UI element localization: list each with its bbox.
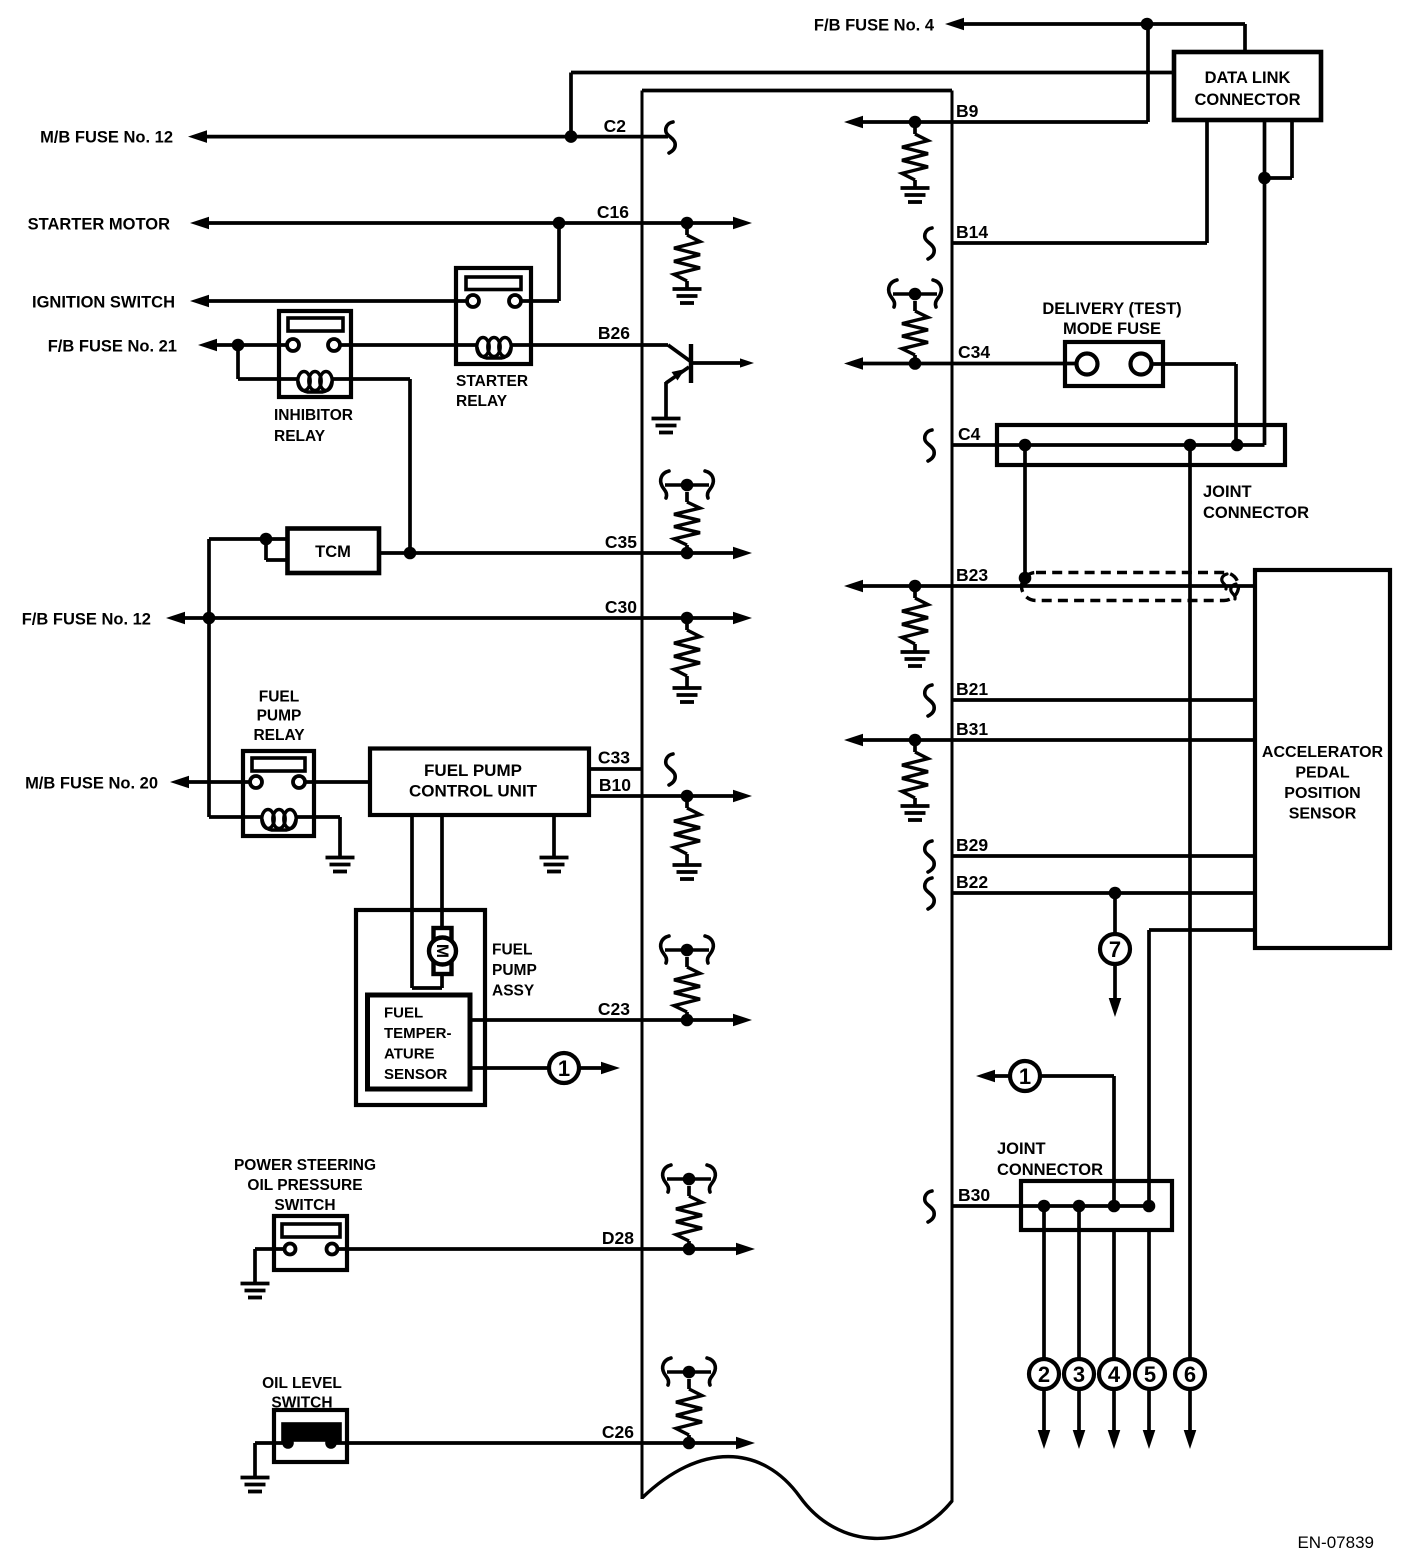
node 2 circle bbox=[1029, 1359, 1059, 1389]
svg-text:DATA LINK: DATA LINK bbox=[1205, 69, 1291, 87]
resistor pull-up C23 bbox=[674, 957, 700, 1020]
power steering switch contact right bbox=[327, 1244, 338, 1255]
svg-text:DELIVERY (TEST): DELIVERY (TEST) bbox=[1042, 300, 1181, 318]
wire C26 ECM side bbox=[642, 1437, 755, 1450]
svg-text:ACCELERATOR: ACCELERATOR bbox=[1262, 744, 1384, 761]
inhibitor relay contact left bbox=[287, 339, 299, 351]
svg-text:B29: B29 bbox=[956, 835, 988, 855]
svg-text:FUEL: FUEL bbox=[259, 689, 299, 706]
wire D28 ECM side bbox=[642, 1243, 755, 1256]
oil level switch float bar bbox=[283, 1424, 340, 1440]
wire fuel temperature sensor to node 1 bbox=[470, 1066, 549, 1070]
wire B30 row bbox=[952, 1204, 1149, 1208]
svg-text:B26: B26 bbox=[598, 323, 630, 343]
DATA LINK CONNECTOR box bbox=[1174, 52, 1321, 120]
ground B9 resistor bbox=[901, 188, 930, 202]
starter relay contact left bbox=[467, 295, 479, 307]
FUEL PUMP ASSY box bbox=[356, 910, 485, 1105]
svg-text:JOINT: JOINT bbox=[997, 1140, 1046, 1158]
node 6 circle bbox=[1175, 1359, 1205, 1389]
ground oil level switch bbox=[241, 1478, 270, 1492]
svg-text:STARTER MOTOR: STARTER MOTOR bbox=[28, 216, 170, 234]
wire DLC pin to B14 bbox=[1205, 120, 1209, 243]
wire node 1 to bottom joint connector bbox=[1040, 1076, 1114, 1206]
label F/B FUSE No. 12 bbox=[22, 611, 151, 629]
label FUEL TEMPERATURE SENSOR bbox=[384, 1005, 452, 1084]
node 3 circle bbox=[1064, 1359, 1094, 1389]
svg-text:MODE FUSE: MODE FUSE bbox=[1063, 320, 1161, 338]
wire C33 to bus bbox=[589, 767, 642, 771]
svg-text:5: 5 bbox=[1144, 1362, 1156, 1387]
node 4 circle bbox=[1099, 1359, 1129, 1389]
wire oil level switch ground leg bbox=[255, 1443, 288, 1476]
svg-text:C4: C4 bbox=[958, 424, 981, 444]
svg-text:SENSOR: SENSOR bbox=[1289, 806, 1357, 823]
node 7 circle bbox=[1100, 934, 1130, 964]
pin C33 bbox=[598, 748, 630, 768]
wire inhibitor to starter relay bbox=[340, 343, 456, 347]
svg-text:OIL PRESSURE: OIL PRESSURE bbox=[247, 1177, 362, 1194]
svg-text:POSITION: POSITION bbox=[1284, 785, 1360, 802]
svg-text:M/B FUSE No. 20: M/B FUSE No. 20 bbox=[25, 775, 158, 793]
wire M/B fuse No.20 to fuel pump relay bbox=[170, 776, 250, 789]
connector break B14 bbox=[925, 228, 934, 259]
svg-text:INHIBITOR: INHIBITOR bbox=[274, 407, 353, 424]
TCM U1 box bbox=[288, 529, 380, 574]
pin C26 bbox=[602, 1422, 634, 1442]
wire D28 to bus bbox=[338, 1247, 643, 1251]
svg-text:3: 3 bbox=[1073, 1362, 1085, 1387]
node right bus line bbox=[951, 91, 954, 1503]
resistor pull-down B10 bbox=[674, 796, 700, 864]
wire F/B fuse No.4 rail bbox=[945, 18, 1245, 52]
pin D28 bbox=[602, 1228, 634, 1248]
connector break C4 bbox=[925, 430, 934, 461]
wire to node 3 bbox=[1077, 1206, 1081, 1359]
label M/B FUSE No. 12 bbox=[40, 129, 173, 147]
relay FUEL PUMP RELAY box bbox=[243, 751, 314, 836]
pin C35 bbox=[605, 532, 637, 552]
wire F/B12 riser to TCM bbox=[209, 533, 287, 817]
svg-text:B30: B30 bbox=[958, 1185, 990, 1205]
node B30 junction 1 bbox=[1038, 1200, 1051, 1213]
JOINT CONNECTOR bottom box bbox=[1021, 1181, 1172, 1230]
pin C4 bbox=[958, 424, 981, 444]
node 1 circle fuel temp bbox=[549, 1053, 579, 1083]
wire delivery fuse to joint connector bbox=[1152, 364, 1237, 445]
wire B26 ECM side bbox=[642, 343, 668, 347]
connector break C33 bbox=[666, 754, 675, 785]
svg-text:B31: B31 bbox=[956, 719, 988, 739]
starter relay coil bbox=[456, 338, 531, 359]
svg-text:M: M bbox=[433, 944, 452, 958]
wire joint connector to B23 bbox=[1019, 445, 1032, 586]
pin C23 bbox=[598, 999, 630, 1019]
svg-text:C26: C26 bbox=[602, 1422, 634, 1442]
svg-text:4: 4 bbox=[1108, 1362, 1121, 1387]
wire C23 to bus bbox=[470, 1018, 642, 1022]
arrow node 1 left bbox=[976, 1070, 1012, 1083]
power steering switch contact left bbox=[285, 1244, 296, 1255]
motor M1 fuel pump bbox=[429, 928, 456, 974]
splice joint above C23 bbox=[661, 936, 714, 963]
wire B29 row bbox=[952, 854, 1255, 858]
svg-text:F/B FUSE No. 4: F/B FUSE No. 4 bbox=[814, 17, 935, 35]
svg-text:CONTROL UNIT: CONTROL UNIT bbox=[409, 782, 538, 801]
label FUEL PUMP RELAY bbox=[253, 689, 305, 745]
fuel pump relay armature bar bbox=[252, 758, 305, 771]
pin B30 bbox=[958, 1185, 990, 1205]
svg-text:B14: B14 bbox=[956, 222, 988, 242]
svg-text:FUEL PUMP: FUEL PUMP bbox=[424, 761, 522, 780]
svg-text:PUMP: PUMP bbox=[492, 962, 537, 979]
connector break C2 bbox=[666, 122, 675, 153]
oil level switch contact right bbox=[325, 1437, 337, 1449]
pin B26 bbox=[598, 323, 630, 343]
node 1 circle right bbox=[1010, 1061, 1040, 1091]
wire B23 row bbox=[844, 580, 1255, 593]
label DATA LINK CONNECTOR bbox=[1194, 69, 1300, 109]
ground fuel pump relay coil bbox=[326, 858, 355, 872]
ACCELERATOR PEDAL POSITION SENSOR box bbox=[1255, 570, 1390, 948]
wire C16 ECM side bbox=[642, 217, 752, 230]
inhibitor relay coil bbox=[279, 372, 351, 393]
svg-text:STARTER: STARTER bbox=[456, 373, 528, 390]
delivery fuse contact right bbox=[1131, 354, 1152, 375]
svg-text:B23: B23 bbox=[956, 565, 988, 585]
resistor pull-down B31 bbox=[902, 740, 928, 805]
delivery fuse contact left bbox=[1077, 354, 1098, 375]
ground power steering switch bbox=[241, 1284, 270, 1298]
node 5 circle bbox=[1135, 1359, 1165, 1389]
JOINT CONNECTOR top box bbox=[997, 425, 1285, 465]
label JOINT CONNECTOR top bbox=[1203, 483, 1309, 522]
svg-text:TCM: TCM bbox=[315, 543, 351, 561]
svg-text:C34: C34 bbox=[958, 342, 990, 362]
wire TCM second input stub bbox=[266, 539, 287, 560]
svg-text:2: 2 bbox=[1038, 1362, 1050, 1387]
pin B31 bbox=[956, 719, 988, 739]
label M/B FUSE No. 20 bbox=[25, 775, 158, 793]
svg-text:C2: C2 bbox=[604, 116, 627, 136]
svg-text:C23: C23 bbox=[598, 999, 630, 1019]
wire APS to bottom joint connector bbox=[1149, 930, 1255, 1206]
ground transistor emitter bbox=[652, 419, 681, 433]
ground C16 resistor bbox=[673, 289, 702, 303]
svg-text:ASSY: ASSY bbox=[492, 983, 535, 1000]
wire control unit ground bbox=[552, 815, 556, 856]
wire power steering switch ground leg bbox=[255, 1249, 285, 1282]
connector break B22 bbox=[925, 878, 934, 909]
wire B9 from DLC rail bbox=[844, 24, 1148, 128]
svg-text:B9: B9 bbox=[956, 101, 979, 121]
ground fuel pump control unit bbox=[540, 858, 569, 872]
wire F/B fuse No.12 to bus C30 bbox=[166, 612, 642, 625]
svg-text:B22: B22 bbox=[956, 872, 988, 892]
svg-text:PUMP: PUMP bbox=[257, 708, 302, 725]
ground B23 resistor bbox=[901, 652, 930, 666]
node C4 junction 3 bbox=[1231, 439, 1244, 452]
node B30 junction 3 bbox=[1108, 1200, 1121, 1213]
transistor Q1 bbox=[666, 344, 754, 417]
svg-text:POWER STEERING: POWER STEERING bbox=[234, 1157, 376, 1174]
svg-text:D28: D28 bbox=[602, 1228, 634, 1248]
switch OIL LEVEL box bbox=[274, 1410, 347, 1462]
pin C30 bbox=[605, 597, 637, 617]
pin B22 bbox=[956, 872, 988, 892]
svg-text:B10: B10 bbox=[599, 775, 631, 795]
wire C30 ECM side bbox=[642, 612, 752, 625]
wire control unit to fuel pump left bbox=[410, 815, 414, 988]
svg-text:M/B FUSE No. 12: M/B FUSE No. 12 bbox=[40, 129, 173, 147]
starter relay contact right bbox=[509, 295, 521, 307]
svg-text:JOINT: JOINT bbox=[1203, 483, 1252, 501]
fuel pump relay contact right bbox=[293, 776, 305, 788]
label F/B FUSE No. 21 bbox=[48, 338, 177, 356]
label DELIVERY (TEST) MODE FUSE bbox=[1042, 300, 1181, 338]
arrow node 2 down bbox=[1038, 1389, 1051, 1449]
pin B21 bbox=[956, 679, 988, 699]
pin C34 bbox=[958, 342, 990, 362]
wire top rail to data link connector bbox=[571, 73, 1174, 137]
arrow node 7 down bbox=[1109, 964, 1122, 1017]
svg-text:SENSOR: SENSOR bbox=[384, 1066, 448, 1083]
connector break B30 bbox=[925, 1191, 934, 1222]
resistor pull-up C35 bbox=[674, 492, 700, 553]
svg-text:1: 1 bbox=[558, 1056, 570, 1081]
svg-text:OIL LEVEL: OIL LEVEL bbox=[262, 1375, 342, 1392]
wire B14 to DLC bbox=[952, 241, 1207, 245]
wire C4 row bbox=[952, 443, 1265, 447]
wire DLC short pin bbox=[1265, 120, 1293, 178]
wire B10 to bus bbox=[589, 794, 642, 798]
svg-text:RELAY: RELAY bbox=[274, 428, 326, 445]
svg-text:TEMPER-: TEMPER- bbox=[384, 1025, 452, 1042]
arrow node 3 down bbox=[1073, 1389, 1086, 1449]
svg-text:EN-07839: EN-07839 bbox=[1297, 1533, 1374, 1552]
label STARTER MOTOR bbox=[28, 216, 170, 234]
FUEL PUMP CONTROL UNIT box bbox=[370, 749, 589, 816]
resistor pull-up D28 bbox=[676, 1186, 702, 1249]
inhibitor relay contact right bbox=[328, 339, 340, 351]
svg-text:FUEL: FUEL bbox=[384, 1005, 423, 1022]
oil level switch contact left bbox=[282, 1437, 294, 1449]
wire inhibitor coil feed bbox=[238, 345, 280, 379]
wire B22 to node 7 bbox=[1113, 893, 1117, 934]
wire C35 ECM side bbox=[642, 547, 752, 560]
resistor pull-up C26 bbox=[676, 1379, 702, 1443]
connector break B21 bbox=[925, 685, 934, 716]
svg-text:RELAY: RELAY bbox=[253, 727, 305, 744]
node B30 junction 2 bbox=[1073, 1200, 1086, 1213]
wire TCM to bus C35 bbox=[379, 547, 642, 560]
splice joint above D28 bbox=[663, 1165, 716, 1192]
resistor pull-up C34 bbox=[902, 301, 928, 364]
label JOINT CONNECTOR bottom bbox=[997, 1140, 1103, 1179]
label FUEL PUMP CONTROL UNIT bbox=[409, 761, 538, 801]
wire B22 row bbox=[952, 887, 1255, 900]
label F/B FUSE No. 4 bbox=[814, 17, 935, 35]
wire fuel pump motor to control unit bbox=[412, 974, 442, 988]
wire to node 4 bbox=[1112, 1230, 1116, 1359]
resistor pull-down B23 bbox=[902, 586, 928, 651]
pin C2 bbox=[604, 116, 627, 136]
ground B31 resistor bbox=[901, 806, 930, 820]
wire to node 2 bbox=[1042, 1206, 1046, 1359]
label IGNITION SWITCH bbox=[32, 294, 175, 312]
label OIL LEVEL SWITCH bbox=[262, 1375, 342, 1412]
svg-text:CONNECTOR: CONNECTOR bbox=[997, 1161, 1103, 1179]
svg-text:7: 7 bbox=[1109, 937, 1121, 962]
arrow node 5 down bbox=[1143, 1389, 1156, 1449]
svg-text:C16: C16 bbox=[597, 202, 629, 222]
label INHIBITOR RELAY bbox=[274, 407, 353, 445]
node C4 junction 1 bbox=[1019, 439, 1032, 452]
wire starter motor to bus C16 bbox=[190, 217, 642, 230]
svg-text:C35: C35 bbox=[605, 532, 637, 552]
svg-text:F/B FUSE No. 12: F/B FUSE No. 12 bbox=[22, 611, 151, 629]
pin B10 bbox=[599, 775, 631, 795]
wire B31 row bbox=[844, 734, 1255, 747]
wire harness break wave bbox=[642, 1457, 952, 1539]
pin B9 bbox=[956, 101, 979, 121]
pin B23 bbox=[956, 565, 988, 585]
wire M/B fuse No.12 to bus C2 bbox=[188, 130, 668, 143]
wire B21 row bbox=[952, 698, 1255, 702]
arrow node 1 right bbox=[579, 1062, 620, 1075]
wire bus top rail bbox=[642, 89, 952, 93]
svg-text:C30: C30 bbox=[605, 597, 637, 617]
wire ignition switch to starter relay bbox=[190, 295, 467, 308]
FUEL TEMPERATURE SENSOR box bbox=[368, 995, 471, 1089]
power steering switch bar bbox=[282, 1224, 340, 1237]
svg-text:PEDAL: PEDAL bbox=[1295, 765, 1349, 782]
fuel pump relay contact left bbox=[250, 776, 262, 788]
splice joint above C35 bbox=[661, 471, 714, 498]
label ACCELERATOR PEDAL POSITION SENSOR bbox=[1262, 744, 1384, 823]
node left bus line bbox=[641, 91, 644, 1500]
wire C16 branch to starter relay bbox=[521, 223, 559, 301]
svg-text:CONNECTOR: CONNECTOR bbox=[1194, 91, 1300, 109]
node C4 junction 2 bbox=[1184, 439, 1197, 452]
wire to node 5 bbox=[1147, 1230, 1151, 1359]
resistor pull-down B9 bbox=[902, 122, 928, 187]
svg-text:ATURE: ATURE bbox=[384, 1046, 435, 1063]
svg-text:SWITCH: SWITCH bbox=[274, 1197, 335, 1214]
label TCM bbox=[315, 543, 351, 561]
pin B14 bbox=[956, 222, 988, 242]
wire F/B fuse No.21 to inhibitor relay bbox=[198, 339, 287, 352]
svg-text:RELAY: RELAY bbox=[456, 393, 508, 410]
relay INHIBITOR RELAY box bbox=[279, 311, 351, 397]
node B30 junction 4 bbox=[1143, 1200, 1156, 1213]
svg-text:IGNITION SWITCH: IGNITION SWITCH bbox=[32, 294, 175, 312]
relay STARTER RELAY box bbox=[456, 268, 531, 364]
wire C34 row bbox=[844, 357, 1078, 370]
svg-text:CONNECTOR: CONNECTOR bbox=[1203, 504, 1309, 522]
label POWER STEERING OIL PRESSURE SWITCH bbox=[234, 1157, 376, 1214]
arrow node 4 down bbox=[1108, 1389, 1121, 1449]
shield dashed box B23 bbox=[1021, 573, 1238, 601]
splice joint above C26 bbox=[663, 1358, 716, 1385]
wire starter relay to bus B26 bbox=[531, 343, 642, 347]
svg-text:1: 1 bbox=[1019, 1064, 1031, 1089]
label STARTER RELAY bbox=[456, 373, 528, 410]
resistor pull-down C30 bbox=[674, 618, 700, 687]
wire fuel pump relay to control unit bbox=[305, 780, 370, 784]
splice joint above C34 bbox=[889, 280, 942, 307]
arrow node 6 down bbox=[1184, 1389, 1197, 1449]
wire control unit to fuel pump right bbox=[440, 815, 444, 928]
label FUEL PUMP ASSY bbox=[492, 942, 537, 1000]
resistor pull-down C16 bbox=[674, 223, 700, 288]
fuel pump relay coil bbox=[243, 810, 314, 831]
pin B29 bbox=[956, 835, 988, 855]
ground C30 resistor bbox=[673, 688, 702, 702]
wire DLC pin to joint connector bbox=[1258, 120, 1271, 445]
starter relay armature bar bbox=[466, 277, 521, 290]
svg-text:C33: C33 bbox=[598, 748, 630, 768]
wire B10 ECM side bbox=[642, 790, 752, 803]
fuse DELIVERY TEST MODE box bbox=[1065, 342, 1163, 386]
svg-text:FUEL: FUEL bbox=[492, 942, 532, 959]
wire C23 ECM side bbox=[642, 1014, 752, 1027]
switch POWER STEERING OIL PRESSURE box bbox=[274, 1216, 347, 1270]
pin C16 bbox=[597, 202, 629, 222]
wire inhibitor coil to TCM bbox=[351, 379, 410, 553]
ground B10 resistor bbox=[673, 865, 702, 879]
connector break B29 bbox=[925, 841, 934, 872]
svg-text:F/B FUSE No. 21: F/B FUSE No. 21 bbox=[48, 338, 177, 356]
wire joint connector to node 6 bbox=[1188, 445, 1192, 1359]
wire fuel pump relay coil to ground bbox=[314, 817, 340, 856]
svg-text:6: 6 bbox=[1184, 1362, 1196, 1387]
label EN-07839 bbox=[1297, 1533, 1374, 1552]
wire C26 to bus bbox=[336, 1441, 642, 1445]
wire fuel pump relay coil feed bbox=[209, 815, 243, 819]
inhibitor relay armature bar bbox=[288, 318, 343, 331]
svg-text:B21: B21 bbox=[956, 679, 988, 699]
